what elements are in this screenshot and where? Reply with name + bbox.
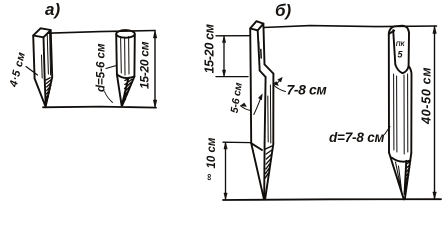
cone inner edge bbox=[122, 79, 128, 104]
square stake S1 bbox=[33, 28, 52, 106]
collar curve bbox=[392, 158, 411, 162]
left edge bbox=[33, 36, 34, 79]
top reference line b bbox=[264, 26, 437, 28]
svg-text:7-8 см: 7-8 см bbox=[287, 82, 328, 98]
grain round stake bbox=[121, 37, 129, 76]
svg-text:4·5 см: 4·5 см bbox=[8, 51, 29, 89]
svg-text:5-6 см: 5-6 см bbox=[229, 82, 245, 114]
cone left bbox=[389, 153, 404, 200]
cone left bbox=[117, 74, 122, 105]
taper right bbox=[265, 144, 273, 199]
leader 4-5 bbox=[26, 67, 38, 76]
taper mid edge bbox=[45, 79, 46, 105]
arrow down 40-50 bbox=[433, 192, 436, 199]
arrow up 10 bbox=[224, 142, 227, 149]
svg-text:15-20 см: 15-20 см bbox=[138, 41, 152, 89]
front edge bbox=[44, 37, 45, 79]
svg-text:d=5-6 см: d=5-6 см bbox=[96, 43, 108, 92]
top reference line a bbox=[48, 31, 155, 34]
facet right edge bbox=[408, 33, 410, 66]
svg-text:а): а) bbox=[45, 0, 60, 19]
ground line a bbox=[43, 107, 156, 108]
right edge body bbox=[272, 74, 274, 144]
front edge narrow bbox=[258, 30, 260, 70]
collar curve bbox=[117, 74, 134, 78]
top bevel face bbox=[250, 21, 263, 30]
left edge bbox=[115, 34, 118, 74]
svg-text:5: 5 bbox=[398, 50, 404, 60]
svg-text:∞: ∞ bbox=[204, 174, 215, 181]
dimension 15-20 cm (a) bbox=[154, 31, 156, 108]
arrow up a bbox=[153, 31, 156, 39]
vertical bbox=[225, 142, 227, 199]
right edge bbox=[51, 30, 53, 77]
top tick bbox=[216, 35, 249, 37]
right edge narrow bbox=[263, 24, 264, 65]
taper inner bbox=[263, 143, 265, 196]
vertical bbox=[223, 36, 225, 77]
ground line b bbox=[223, 198, 441, 201]
facet left edge bbox=[393, 30, 395, 64]
svg-text:б): б) bbox=[275, 1, 292, 20]
grain guard stake body bbox=[268, 85, 271, 143]
arrow up 40-50 bbox=[433, 26, 436, 34]
taper top diagonal bbox=[251, 143, 262, 150]
arrow down 15-20b bbox=[222, 70, 225, 77]
hatch round stake tip bbox=[123, 78, 132, 103]
hatch round stake b tip bbox=[405, 161, 411, 192]
cone right bbox=[405, 153, 412, 199]
shoulder front diagonal bbox=[260, 71, 266, 77]
cap dome bbox=[389, 26, 409, 34]
left edge bbox=[388, 34, 390, 153]
svg-text:40-50 см: 40-50 см bbox=[420, 67, 434, 125]
cap bevel line bbox=[389, 31, 394, 34]
svg-text:10 см: 10 см bbox=[206, 137, 218, 168]
grain square stake bbox=[42, 32, 51, 78]
hatch square stake tip bbox=[46, 78, 52, 104]
leader d=5-6 bbox=[106, 66, 116, 69]
svg-text:d=7-8 см: d=7-8 см bbox=[329, 130, 385, 145]
right edge bbox=[409, 66, 412, 153]
dimension 15-20 (b) bbox=[216, 36, 249, 77]
grain round stake b bbox=[394, 74, 408, 192]
cone right bbox=[122, 77, 134, 106]
top ellipse bbox=[116, 30, 135, 38]
arrow down 10 bbox=[224, 193, 227, 200]
arrow down a bbox=[153, 100, 156, 108]
left edge full bbox=[250, 28, 251, 143]
dimension 40-50 cm bbox=[434, 26, 436, 199]
inner arrow NE bbox=[254, 95, 262, 114]
taper left bbox=[251, 143, 264, 198]
svg-text:ПК: ПК bbox=[396, 41, 406, 48]
right edge bbox=[133, 34, 135, 76]
hatch guard stake tip bbox=[265, 146, 272, 178]
round stake S4 bbox=[389, 26, 412, 200]
arrow up 15-20b bbox=[222, 36, 225, 43]
taper left bbox=[35, 79, 46, 107]
bottom tick bbox=[216, 76, 248, 78]
dimension ~10 cm bbox=[223, 142, 251, 199]
guard stake S3 bbox=[250, 21, 273, 198]
top bevel face bbox=[33, 28, 51, 37]
leader 5-6 arrow bbox=[241, 106, 251, 111]
leader d=7-8 bbox=[385, 127, 391, 135]
facet bottom notch bbox=[395, 65, 408, 74]
shoulder side diagonal bbox=[265, 64, 274, 73]
taper right bbox=[46, 77, 53, 106]
round stake S2 bbox=[116, 30, 135, 105]
small arrow NE at shoulder bbox=[276, 79, 281, 85]
svg-text:15-20 см: 15-20 см bbox=[203, 24, 217, 73]
top tick (ground at stake) bbox=[223, 141, 251, 143]
leader 7-8 bbox=[274, 85, 286, 92]
hook below d=5-6 bbox=[105, 92, 113, 103]
marks on narrow face bbox=[259, 42, 262, 59]
cone inner bbox=[405, 161, 407, 194]
front edge body bbox=[265, 77, 266, 143]
